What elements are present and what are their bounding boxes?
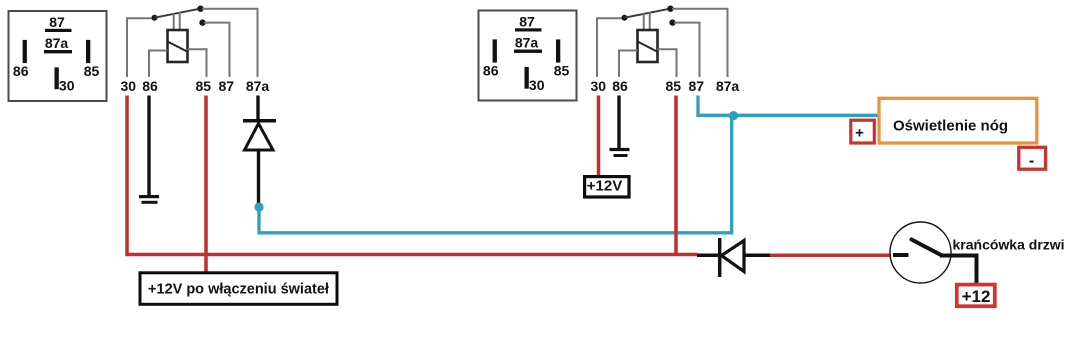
wire red from K1 pin 30 down bbox=[125, 96, 129, 254]
wire red from K1 pin 85 down to +12V lights box bbox=[204, 96, 208, 273]
relay K1 coil linkage rods bbox=[174, 12, 180, 30]
wire black from K1 pin 86 down bbox=[147, 96, 150, 196]
svg-text:85: 85 bbox=[196, 78, 212, 94]
switch S1 left contact stub bbox=[893, 253, 909, 257]
wire red from K2 pin 85 down to red bus bbox=[674, 96, 678, 255]
socket K1 pin 30 blade bbox=[55, 67, 59, 89]
svg-text:86: 86 bbox=[13, 63, 29, 79]
socket K1 pin 87 blade bbox=[45, 29, 72, 32]
svg-text:krańcówka drzwi: krańcówka drzwi bbox=[953, 237, 1065, 253]
svg-text:30: 30 bbox=[591, 78, 607, 94]
label box +12V po wlaczeniu swiatel bbox=[140, 273, 337, 305]
relay K2 pin 30 lead bbox=[597, 18, 623, 77]
relay K2 pin 87 lead bbox=[674, 23, 700, 77]
relay K1 contact 87a dot bbox=[197, 6, 203, 12]
svg-text:30: 30 bbox=[529, 77, 545, 93]
svg-text:30: 30 bbox=[121, 78, 137, 94]
relay K1 pin 85 lead bbox=[188, 49, 207, 77]
relay socket pinout box K1 outline bbox=[9, 11, 107, 101]
wire black from K1 pin 87a down to diode D1 bbox=[256, 96, 259, 121]
svg-text:Oświetlenie nóg: Oświetlenie nóg bbox=[893, 118, 1008, 135]
lighting box plus terminal bbox=[851, 120, 875, 143]
diode D1 cathode bar bbox=[243, 119, 276, 123]
svg-text:+12V po włączeniu świateł: +12V po włączeniu świateł bbox=[148, 282, 329, 298]
relay K1 pin 30 lead bbox=[127, 18, 153, 77]
relay K2 contact 87a dot bbox=[667, 6, 673, 12]
relay K2 pin 85 lead bbox=[658, 49, 677, 77]
diode D2 triangle bbox=[722, 241, 745, 272]
wire black from switch S1 to +12 box bbox=[940, 256, 977, 284]
relay K1 armature bbox=[155, 9, 201, 18]
diode D1 triangle bbox=[245, 124, 274, 151]
relay K2 armature bbox=[625, 9, 671, 18]
wire blue from node N1 to node N2 bbox=[259, 115, 732, 233]
relay K1 pin 87a lead bbox=[202, 9, 258, 77]
svg-text:86: 86 bbox=[612, 78, 628, 94]
lighting load box Oswietlenie nog bbox=[879, 98, 1037, 143]
socket K1 pin 87a blade bbox=[44, 50, 72, 53]
svg-text:85: 85 bbox=[84, 63, 100, 79]
wire black diode D2 right stub bbox=[744, 253, 771, 257]
relay K2 armature pivot contact dot bbox=[622, 15, 628, 21]
svg-text:87a: 87a bbox=[515, 35, 539, 51]
svg-text:-: - bbox=[1029, 153, 1034, 170]
wire red from diode D2 to door switch bbox=[770, 253, 891, 257]
svg-text:+12: +12 bbox=[962, 287, 991, 306]
svg-text:87: 87 bbox=[689, 78, 705, 94]
socket K2 pin 30 blade bbox=[525, 67, 529, 89]
wire red from K2 pin 30 down to +12V box bbox=[597, 96, 601, 178]
relay K2 contact 87 dot bbox=[669, 19, 675, 25]
relay K2 pin 87a lead bbox=[672, 9, 728, 77]
svg-text:+12V: +12V bbox=[587, 178, 622, 195]
svg-text:86: 86 bbox=[483, 63, 499, 79]
relay K1 pin 86 lead bbox=[149, 51, 168, 78]
door limit switch S1 circle bbox=[890, 222, 951, 283]
svg-text:30: 30 bbox=[59, 78, 75, 94]
svg-text:+: + bbox=[855, 125, 864, 142]
lighting box minus terminal bbox=[1019, 147, 1046, 169]
svg-text:87a: 87a bbox=[45, 35, 69, 51]
socket K2 pin 86 blade bbox=[493, 39, 497, 62]
svg-text:87: 87 bbox=[219, 78, 235, 94]
wire black diode D2 left stub bbox=[697, 253, 719, 257]
relay K2 coil linkage rods bbox=[644, 12, 650, 30]
svg-text:85: 85 bbox=[554, 63, 570, 79]
ground symbol G1 bbox=[139, 197, 159, 203]
svg-text:87: 87 bbox=[519, 14, 535, 30]
wire red bus from K1 pin 30 to diode D2 bbox=[125, 253, 697, 257]
relay K2 pin 86 lead bbox=[619, 51, 638, 78]
wire blue from K2 pin 87 to node N2 bbox=[698, 96, 731, 116]
socket K1 pin 86 blade bbox=[23, 40, 27, 63]
relay K1 pin 87 lead bbox=[204, 23, 230, 77]
relay K1 contact 87 dot bbox=[199, 19, 205, 25]
svg-text:87: 87 bbox=[49, 14, 65, 30]
switch S1 lever bbox=[912, 240, 943, 256]
wire black from K2 pin 86 down bbox=[617, 96, 620, 149]
wire black diode D1 anode down to node N1 bbox=[257, 152, 260, 206]
ground symbol G2 bbox=[610, 150, 630, 156]
node N1 junction dot (blue) bbox=[254, 202, 263, 211]
relay K1 armature pivot contact dot bbox=[152, 15, 158, 21]
svg-text:87a: 87a bbox=[716, 78, 740, 94]
svg-text:85: 85 bbox=[666, 78, 682, 94]
socket K2 pin 87a blade bbox=[514, 50, 542, 53]
socket K2 pin 85 blade bbox=[556, 39, 560, 62]
supply box +12 bbox=[957, 285, 995, 307]
svg-text:87a: 87a bbox=[246, 78, 270, 94]
node N2 junction dot (blue) bbox=[729, 111, 738, 120]
relay socket pinout box K2 outline bbox=[479, 11, 577, 101]
socket K2 pin 87 blade bbox=[515, 28, 542, 31]
socket K1 pin 85 blade bbox=[86, 40, 90, 63]
diode D2 cathode bar bbox=[718, 238, 722, 277]
supply label box +12V bbox=[585, 177, 629, 197]
svg-text:86: 86 bbox=[142, 78, 158, 94]
wire blue from node N2 to lighting box bbox=[734, 114, 879, 117]
relay K1 coil bbox=[168, 30, 188, 62]
relay K2 coil bbox=[638, 30, 658, 62]
